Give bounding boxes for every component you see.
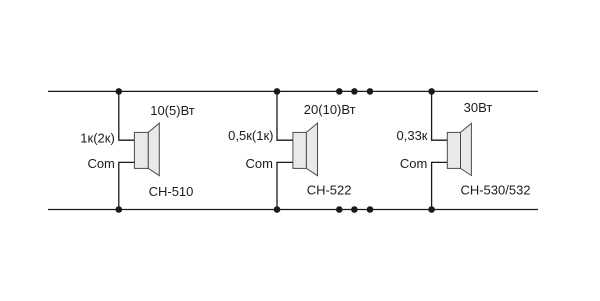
svg-text:CH-522: CH-522: [307, 183, 352, 198]
junction dot top speaker3: [428, 88, 435, 95]
wire speaker2 top lead: [277, 91, 293, 140]
svg-text:1к(2к): 1к(2к): [80, 130, 115, 145]
wire speaker1 bottom lead: [119, 162, 135, 209]
svg-text:20(10)Вт: 20(10)Вт: [304, 102, 356, 117]
svg-text:10(5)Вт: 10(5)Вт: [150, 103, 195, 118]
continuation dots top bus: [336, 88, 373, 95]
wire top bus: [48, 90, 538, 92]
junction dot top speaker2: [274, 88, 281, 95]
svg-text:Com: Com: [246, 156, 273, 171]
junction dot bottom speaker3: [428, 206, 435, 213]
speaker LS3: [447, 123, 471, 175]
svg-text:Com: Com: [87, 156, 114, 171]
wire speaker1 top lead: [119, 91, 135, 140]
wire speaker3 bottom lead: [432, 162, 448, 209]
svg-text:Com: Com: [400, 156, 427, 171]
svg-text:0,5к(1к): 0,5к(1к): [228, 128, 273, 143]
svg-text:CH-530/532: CH-530/532: [460, 183, 530, 198]
speaker LS2: [293, 123, 318, 176]
junction dot bottom speaker1: [116, 206, 123, 213]
wire speaker2 bottom lead: [277, 162, 293, 209]
wire bottom bus: [48, 209, 538, 211]
wire speaker3 top lead: [432, 91, 448, 140]
speaker LS1: [134, 123, 159, 176]
svg-text:CH-510: CH-510: [149, 184, 194, 199]
svg-text:30Вт: 30Вт: [464, 100, 493, 115]
junction dot top speaker1: [116, 88, 123, 95]
junction dot bottom speaker2: [274, 206, 281, 213]
svg-text:0,33к: 0,33к: [397, 128, 428, 143]
continuation dots bottom bus: [336, 206, 373, 213]
